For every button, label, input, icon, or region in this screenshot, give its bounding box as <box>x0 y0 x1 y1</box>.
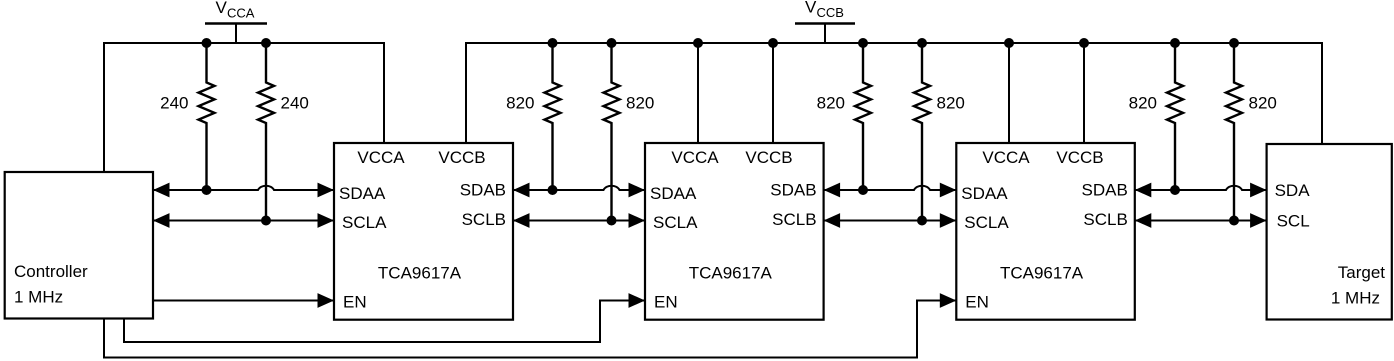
wire SCL U2-U3 <box>824 220 957 222</box>
svg-text:820: 820 <box>817 94 845 113</box>
svg-text:SDAA: SDAA <box>961 184 1008 203</box>
junction dot rail/U3 VCCA <box>1004 38 1014 48</box>
svg-text:SDAB: SDAB <box>1082 180 1128 199</box>
wire EN Controller to U2 (routed under) <box>124 301 645 343</box>
junction dot R8 bottom to SCL line <box>1229 216 1239 226</box>
arrowhead SCL into U3 <box>1135 213 1152 228</box>
svg-text:1 MHz: 1 MHz <box>14 288 63 307</box>
svg-text:SDAA: SDAA <box>339 184 386 203</box>
junction dot rail/R7 top <box>1170 38 1180 48</box>
wire SDA Controller-U1 (with crossover hop at x=266.0) <box>153 186 334 190</box>
wire SCL U3-Target <box>1135 220 1267 222</box>
svg-text:VCCA: VCCA <box>357 148 405 167</box>
svg-text:820: 820 <box>626 94 654 113</box>
arrowhead SDA into U2 <box>629 183 646 198</box>
svg-text:SDAA: SDAA <box>650 184 697 203</box>
svg-text:EN: EN <box>654 293 678 312</box>
svg-text:820: 820 <box>1249 94 1277 113</box>
svg-text:SDAB: SDAB <box>770 180 816 199</box>
junction dot R6 bottom to SCL line <box>917 216 927 226</box>
svg-text:1 MHz: 1 MHz <box>1331 289 1380 308</box>
buffer U1 TCA9617A box <box>334 143 513 320</box>
wire U3 VCCB pin stub <box>1083 43 1085 143</box>
power symbol VCCB stem <box>824 24 826 44</box>
junction dot rail/R6 top <box>917 38 927 48</box>
arrowhead SDA into Target <box>1250 183 1267 198</box>
svg-text:SCL: SCL <box>1277 212 1310 231</box>
arrowhead SCL into U1 <box>513 213 530 228</box>
arrowhead SDA into U3 <box>1135 183 1152 198</box>
junction dot R7 bottom to SDA line <box>1170 185 1180 195</box>
svg-text:SCLA: SCLA <box>964 213 1009 232</box>
svg-text:820: 820 <box>1129 94 1157 113</box>
wire U3 VCCA pin stub <box>1008 43 1010 143</box>
svg-text:EN: EN <box>343 293 367 312</box>
svg-text:SCLB: SCLB <box>462 210 506 229</box>
svg-text:TCA9617A: TCA9617A <box>689 264 773 283</box>
wire VCCA rail: controller top to U1 VCCA pin <box>104 43 384 172</box>
svg-text:240: 240 <box>281 94 309 113</box>
svg-text:VCCB: VCCB <box>745 148 792 167</box>
arrowhead SCL into Controller <box>153 213 170 228</box>
junction dot rail/R1 top <box>202 38 212 48</box>
resistor 820 ohm R6 <box>914 43 930 221</box>
resistor 820 ohm R7 <box>1167 43 1183 190</box>
svg-text:SCLA: SCLA <box>653 213 698 232</box>
svg-text:SCLB: SCLB <box>1083 210 1127 229</box>
svg-text:CCA: CCA <box>227 6 255 21</box>
junction dot rail/R8 top <box>1229 38 1239 48</box>
svg-text:CCB: CCB <box>817 5 844 20</box>
junction dot R3 bottom to SDA line <box>548 185 558 195</box>
svg-text:SDAB: SDAB <box>460 180 506 199</box>
svg-text:V: V <box>805 0 817 17</box>
arrowhead SDA into U1 <box>318 183 335 198</box>
arrowhead SDA into U3 <box>940 183 957 198</box>
svg-text:VCCA: VCCA <box>982 148 1030 167</box>
resistor 820 ohm R5 <box>855 43 871 190</box>
Controller box <box>5 172 153 319</box>
arrowhead SDA into Controller <box>153 183 170 198</box>
svg-text:820: 820 <box>937 94 965 113</box>
junction dot rail/R3 top <box>548 38 558 48</box>
wire EN Controller to U1 <box>153 300 334 302</box>
buffer U2 TCA9617A box <box>645 143 824 320</box>
junction dot rail/R4 top <box>607 38 617 48</box>
junction dot rail/U2 VCCB <box>768 38 778 48</box>
junction dot rail/R2 top <box>261 38 271 48</box>
power symbol VCCA stem <box>235 24 237 44</box>
svg-text:VCCB: VCCB <box>1056 148 1103 167</box>
wire EN Controller to U3 (routed under) <box>104 301 956 358</box>
power symbol VCCB bar <box>795 22 855 25</box>
arrowhead SCL into U2 <box>824 213 841 228</box>
arrowhead SCL into U3 <box>940 213 957 228</box>
arrowhead EN into U3 <box>940 293 957 308</box>
resistor 240 ohm R2 <box>258 43 274 221</box>
junction dot R4 bottom to SCL line <box>607 216 617 226</box>
junction dot R1 bottom to SDA line <box>202 185 212 195</box>
wire VCCB rail: U1 VCCB pin across to Target top <box>466 43 1322 144</box>
svg-text:SCLB: SCLB <box>772 210 816 229</box>
svg-text:EN: EN <box>965 293 989 312</box>
junction dot R2 bottom to SCL line <box>261 216 271 226</box>
wire SDA U1-U2 (with crossover hop at x=611.5) <box>513 186 645 190</box>
junction dot rail/U3 VCCB <box>1079 38 1089 48</box>
arrowhead EN into U2 <box>629 293 646 308</box>
junction dot R5 bottom to SDA line <box>858 185 868 195</box>
arrowhead SCL into U2 <box>629 213 646 228</box>
wire SDA U2-U3 (with crossover hop at x=922.0) <box>824 186 957 190</box>
wire SCL U1-U2 <box>513 220 645 222</box>
svg-text:820: 820 <box>506 94 534 113</box>
svg-text:Controller: Controller <box>14 262 88 281</box>
svg-text:240: 240 <box>160 94 188 113</box>
svg-text:TCA9617A: TCA9617A <box>1000 264 1084 283</box>
Target box <box>1267 144 1392 320</box>
arrowhead SDA into U1 <box>513 183 530 198</box>
resistor 820 ohm R4 <box>604 43 620 221</box>
wire U2 VCCB pin stub <box>772 43 774 143</box>
svg-text:TCA9617A: TCA9617A <box>378 264 462 283</box>
wire SDA U3-Target (with crossover hop at x=1234.0) <box>1135 186 1267 190</box>
svg-text:V: V <box>216 0 228 17</box>
svg-text:Target: Target <box>1338 263 1386 282</box>
wire SCL Controller-U1 <box>153 220 334 222</box>
wire U2 VCCA pin stub <box>697 43 699 143</box>
svg-text:VCCA: VCCA <box>671 148 719 167</box>
arrowhead SCL into Target <box>1250 213 1267 228</box>
power symbol VCCA bar <box>205 22 267 25</box>
arrowhead SDA into U2 <box>824 183 841 198</box>
arrowhead SCL into U1 <box>318 213 335 228</box>
buffer U3 TCA9617A box <box>956 143 1135 320</box>
svg-text:SDA: SDA <box>1275 181 1311 200</box>
svg-text:VCCB: VCCB <box>438 148 485 167</box>
arrowhead EN into U1 <box>318 293 335 308</box>
resistor 820 ohm R3 <box>545 43 561 190</box>
junction dot rail/U2 VCCA <box>693 38 703 48</box>
junction dot rail/R5 top <box>858 38 868 48</box>
resistor 240 ohm R1 <box>199 43 215 190</box>
svg-text:SCLA: SCLA <box>342 213 387 232</box>
resistor 820 ohm R8 <box>1226 43 1242 221</box>
